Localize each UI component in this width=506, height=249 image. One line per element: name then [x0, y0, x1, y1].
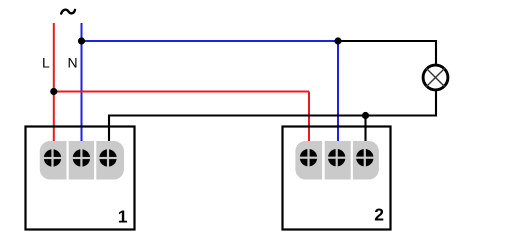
switch box 1 outline [26, 127, 135, 230]
wire L vertical (red, from source to box1 terminal 1) [53, 23, 55, 145]
svg-text:2: 2 [374, 205, 384, 225]
junction node on lamp return above box2 [362, 112, 369, 119]
wire N branch vertical (blue, down to box2 terminal 2) [337, 41, 339, 145]
wire L branch vertical (red, down to box2 terminal 1) [308, 92, 310, 146]
AC source symbol ~ [61, 10, 75, 14]
wire lamp feed (black, top to lamp) [338, 41, 436, 65]
svg-text:1: 1 [118, 207, 128, 227]
svg-text:N: N [68, 54, 78, 70]
junction node on L at source drop [50, 88, 57, 95]
wire lamp return (black, lamp to box1 terminal 3) [109, 91, 436, 146]
wire N vertical (blue, from source to box1 terminal 2) [81, 23, 83, 145]
wire L horizontal (red) [54, 91, 309, 93]
box2 screw terminal 1 [299, 148, 318, 167]
box2 terminal block [295, 141, 379, 180]
box1 terminal block [40, 141, 124, 180]
box1 screw terminal 1 [43, 148, 62, 167]
junction node on N at source drop [78, 37, 85, 44]
box2 screw terminal 3 [355, 148, 374, 167]
box1 screw terminal 3 [98, 148, 117, 167]
svg-text:L: L [42, 54, 50, 70]
junction node on N above box2 [334, 37, 341, 44]
box2 screw terminal 2 [327, 148, 346, 167]
switch box 2 outline [283, 127, 391, 230]
wire N horizontal (blue) [82, 40, 339, 42]
box1 screw terminal 2 [72, 148, 91, 167]
wire switched-line vertical (black, down to box2 terminal 3) [364, 116, 366, 146]
lamp X1 [423, 65, 448, 90]
